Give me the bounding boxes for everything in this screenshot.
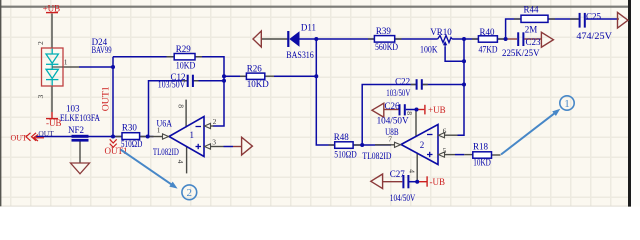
svg-text:510ΩD: 510ΩD [334, 150, 357, 160]
svg-text:3: 3 [36, 95, 45, 99]
svg-text:C26: C26 [385, 101, 401, 111]
svg-text:5: 5 [443, 146, 447, 155]
svg-text:7: 7 [388, 134, 392, 143]
svg-text:2M: 2M [525, 25, 538, 35]
svg-text:OUT1: OUT1 [100, 86, 110, 111]
svg-text:560KD: 560KD [375, 42, 398, 52]
svg-text:OUT: OUT [38, 129, 54, 138]
svg-text:C25: C25 [586, 12, 602, 22]
svg-text:1: 1 [190, 130, 195, 140]
svg-text:8: 8 [177, 104, 186, 108]
svg-text:R44: R44 [524, 4, 540, 14]
svg-text:1: 1 [564, 98, 570, 110]
svg-text:8: 8 [405, 111, 414, 115]
svg-text:ELKE103FA: ELKE103FA [60, 113, 100, 123]
svg-text:4: 4 [408, 169, 417, 173]
svg-text:R18: R18 [473, 142, 489, 152]
svg-text:6: 6 [443, 127, 447, 136]
svg-text:2: 2 [187, 187, 193, 199]
svg-text:103/50V: 103/50V [158, 79, 186, 89]
svg-text:474/25V: 474/25V [576, 31, 612, 41]
svg-text:104/50V: 104/50V [377, 116, 410, 126]
svg-text:3: 3 [212, 138, 216, 147]
svg-text:OUT: OUT [11, 133, 28, 142]
svg-text:+UB: +UB [428, 105, 446, 115]
svg-text:1: 1 [64, 58, 68, 67]
svg-text:1: 1 [157, 126, 161, 135]
svg-text:225K/25V: 225K/25V [502, 48, 540, 58]
svg-text:-UB: -UB [430, 177, 446, 187]
svg-text:R26: R26 [247, 64, 263, 74]
svg-text:TL082ID: TL082ID [362, 151, 391, 161]
svg-text:R48: R48 [334, 132, 350, 142]
svg-text:10KD: 10KD [247, 79, 269, 89]
svg-text:D11: D11 [301, 23, 316, 33]
svg-text:NF2: NF2 [68, 125, 84, 135]
svg-text:R40: R40 [480, 27, 496, 37]
svg-text:+UB: +UB [43, 3, 61, 13]
svg-text:10KD: 10KD [176, 60, 196, 70]
svg-text:C22: C22 [395, 77, 410, 87]
svg-text:100K: 100K [420, 44, 438, 54]
svg-text:4: 4 [176, 160, 185, 164]
svg-text:BAV99: BAV99 [92, 45, 112, 55]
svg-text:C23: C23 [526, 37, 542, 47]
svg-text:R39: R39 [376, 26, 392, 36]
svg-text:2: 2 [213, 117, 217, 126]
svg-text:2: 2 [420, 140, 425, 150]
svg-text:104/50V: 104/50V [390, 193, 416, 203]
svg-text:10KD: 10KD [473, 158, 491, 168]
svg-text:BAS316: BAS316 [286, 50, 314, 60]
svg-text:TL082ID: TL082ID [153, 147, 179, 157]
svg-text:VR10: VR10 [430, 27, 452, 37]
svg-text:2: 2 [36, 41, 45, 45]
svg-text:103/50V: 103/50V [386, 88, 410, 98]
svg-text:-UB: -UB [46, 118, 62, 128]
svg-text:R29: R29 [176, 44, 192, 54]
svg-text:47KD: 47KD [479, 45, 498, 55]
svg-text:R30: R30 [122, 123, 138, 133]
svg-text:C27: C27 [390, 169, 406, 179]
